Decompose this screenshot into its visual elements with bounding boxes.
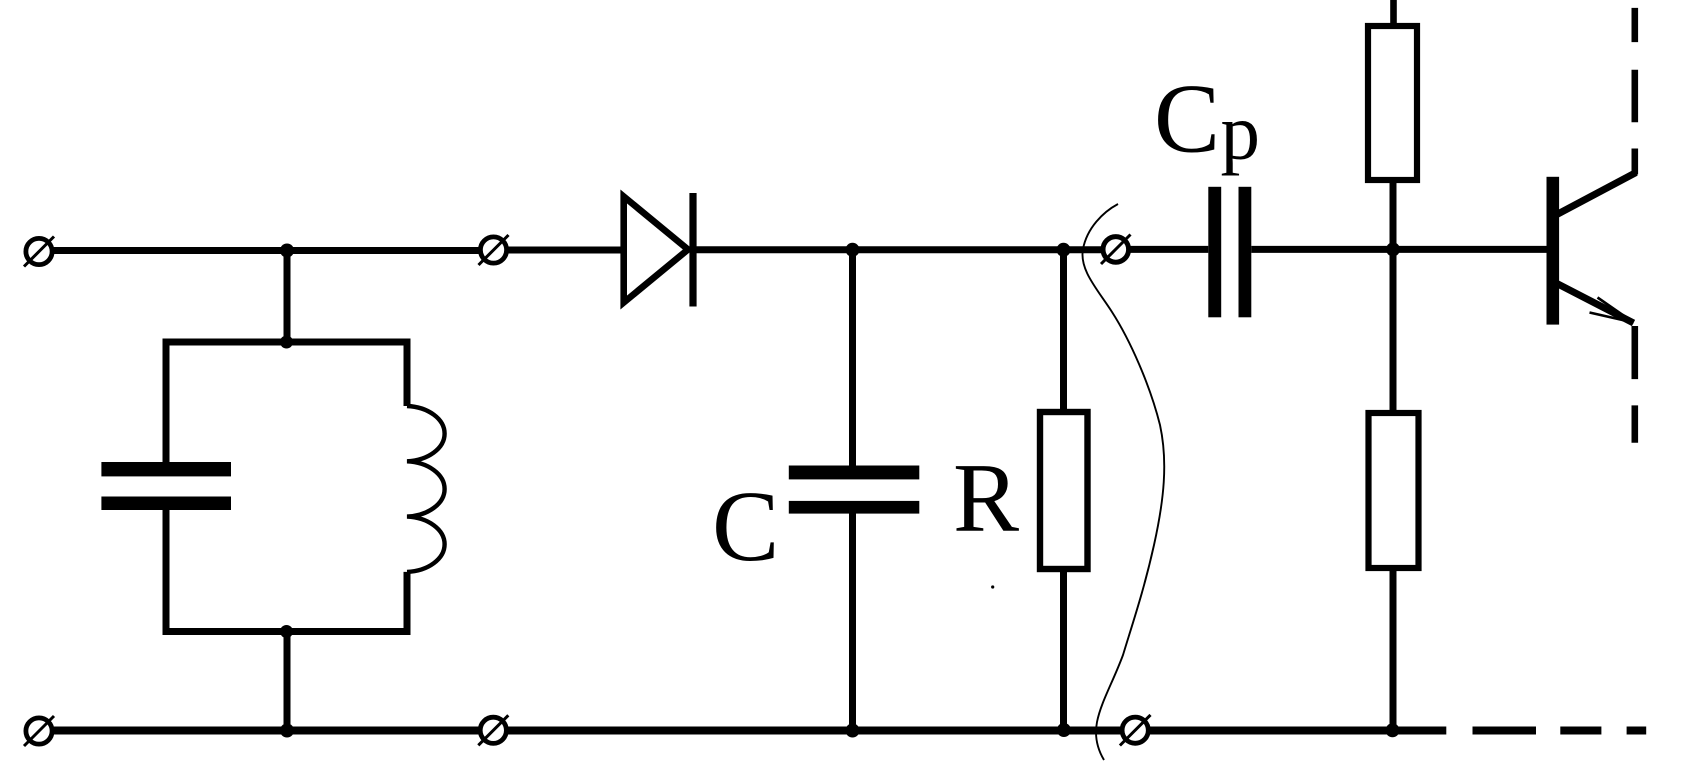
wire: resistor R to bottom rail (1060, 568, 1067, 731)
wire: resistor R1 to junction (1390, 180, 1397, 413)
wire: terminal X2 to diode anode (508, 247, 624, 254)
node: top rail / tank junction (280, 244, 294, 258)
wire: diode cathode to C junction to R junction to terminal X3 (693, 246, 1103, 253)
wire: resistor R2 to bottom rail (1390, 568, 1397, 731)
capacitor C plates (789, 466, 920, 514)
node: top rail / R branch (1057, 243, 1071, 257)
svg-text:p: p (1221, 90, 1261, 177)
diode VD (detector) (624, 193, 693, 307)
terminal X1 (top-left input) (24, 237, 54, 267)
wire: junction down to tank top (284, 251, 291, 343)
resistor R2 (lower bias) (1369, 413, 1419, 568)
capacitor C-tank (tuning capacitor) (101, 462, 231, 510)
node: base rail / bias divider junction (1386, 242, 1400, 256)
wire: bottom rail dashed continuation (1473, 727, 1647, 735)
wire: top feed into resistor R1 (1390, 0, 1397, 27)
node: top rail / C branch (846, 243, 860, 257)
wire bottom rail: X4 to X5 (54, 727, 479, 735)
inductor L (tank coil), right branch upper stub (404, 342, 411, 406)
svg-text:R: R (953, 444, 1019, 553)
node: bottom rail / bias divider (1386, 723, 1400, 737)
wire: dashed collector continuation up (1632, 8, 1639, 175)
svg-text:C: C (1154, 65, 1220, 174)
node: tank bottom junction (280, 625, 293, 638)
wire: junction down to capacitor C (849, 250, 856, 466)
transistor VT emitter line (1555, 283, 1634, 324)
terminal X4 (bottom-left) (24, 716, 54, 746)
transistor VT base bar (1547, 177, 1560, 325)
wire: tank rectangle bottom edge (163, 628, 411, 635)
resistor R1 (upper bias) (1368, 26, 1417, 180)
wire: capacitor C to bottom rail (849, 513, 856, 731)
resistor R body (1040, 412, 1088, 569)
terminal X3 (top right) (1101, 235, 1131, 265)
node: bottom rail / C branch (846, 724, 860, 738)
wire top rail: terminal X1 to terminal X2 (54, 247, 480, 254)
stray ink speck (991, 585, 994, 588)
wire bottom rail: X6 to dashes (1150, 727, 1446, 735)
transistor VT emitter arrowhead (1590, 298, 1634, 323)
terminal X6 (bottom right) (1120, 715, 1151, 746)
capacitor Cp plates (1208, 187, 1251, 317)
terminal X5 (bottom middle) (478, 715, 508, 745)
inductor L lower stub (404, 572, 411, 632)
wire: tank bottom to bottom rail (284, 632, 291, 731)
wire: terminal X3 to capacitor Cp (1130, 246, 1209, 253)
svg-text:C: C (712, 470, 779, 582)
wire: tank left branch lower (163, 510, 170, 632)
wire: tank left branch upper (163, 342, 170, 463)
node: tank top junction (280, 336, 293, 349)
terminal X2 (top middle) (479, 235, 509, 265)
wire: tank rectangle top edge (163, 339, 411, 346)
wire bottom rail: X5 to terminal X6 (508, 727, 1121, 735)
node: bottom rail / tank (280, 724, 294, 738)
break line (wavy tear) (1082, 204, 1164, 760)
node: bottom rail / R branch (1057, 723, 1071, 737)
wire: dashed emitter continuation down (1632, 326, 1639, 443)
transistor VT collector line (1555, 173, 1636, 216)
inductor L coil bumps (407, 406, 445, 572)
wire: capacitor Cp to transistor base (1251, 246, 1546, 253)
wire: junction down to resistor R (1060, 250, 1067, 413)
